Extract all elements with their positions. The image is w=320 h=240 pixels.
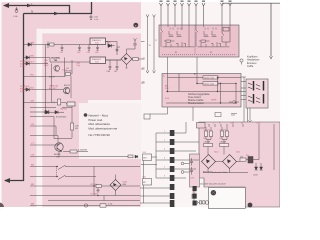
wire row 89.5 [48,89,63,91]
svg-text:BU: BU [31,165,34,167]
IC1 box TDA4600 [90,38,106,45]
transistor T62 [63,87,69,94]
svg-text:S2: S2 [210,52,212,54]
entry component small rect [50,43,55,46]
diode at pin3 [26,62,29,66]
pin wire row 10 [30,135,48,137]
svg-text:RD: RD [31,75,35,77]
capacitor on row 191 [97,188,100,193]
svg-text:0,4A: 0,4A [20,65,25,68]
svg-text:1,8k/5W: 1,8k/5W [204,142,211,144]
tiny labels above arrows [160,1,232,2]
label BU208 T60 above transistor [52,57,61,62]
capacitor C at N corner [90,15,93,20]
caps row hanging from wire 44.5 [61,45,99,51]
wire L line [5,6,70,14]
svg-text:IC60: IC60 [95,42,99,44]
relay box bottom dashed line [162,54,236,56]
striped connector bar main [170,130,175,207]
fuse F1 [203,82,218,86]
relay group 2 internals [196,25,230,47]
badge circle bottom right [248,203,253,208]
small box mid white area [144,114,150,119]
diode D61 [46,111,49,114]
resistor pair 1b [220,129,229,136]
wires pairs down [206,127,227,140]
diode end row156 [135,155,138,158]
svg-text:GY: GY [31,62,35,64]
svg-text:C61: C61 [60,52,63,54]
svg-text:10k: 10k [240,156,243,158]
wires from fuse box down [150,107,193,121]
svg-text:N: N [31,10,33,14]
svg-text:220-240V 110-120V 220-240V: 220-240V 110-120V 220-240V [200,183,226,185]
fuse F2 [203,76,218,80]
pin wire row 4 [24,76,48,78]
svg-text:GY 60Hz: GY 60Hz [90,193,98,195]
svg-text:3: 3 [164,149,165,151]
svg-text:BU: BU [31,88,34,90]
top entry marks row [203,124,259,127]
wires crossing connector bars [140,122,199,203]
svg-text:Mod. alimentatore: Mod. alimentatore [89,122,111,126]
diode D60 right of IC1 [106,42,115,48]
diode at pin2 [26,56,29,60]
caps in extension [190,158,193,175]
svg-text:C10: C10 [203,138,206,140]
mains plug symbol [15,7,18,13]
page background [0,0,280,210]
module border white channel: left vertical band (connector strip) [37,29,43,207]
red wire-colour labels left of pins [31,43,35,206]
pin wire row 13 [30,166,48,168]
wire row 205.5 [48,205,140,207]
wire N line [24,2,92,14]
IC2 box TDA4600 [90,57,106,64]
white bottom margin [0,207,280,210]
red label far right of T61a [77,63,81,67]
far right vertical wire [273,124,275,170]
pin wire row 12 [30,156,48,158]
resistor 1k horizontal ch1 [204,142,213,147]
svg-text:2: 2 [164,140,165,142]
pink bottom middle section [88,158,141,207]
capacitor C64 [96,45,99,51]
junction dots fuse verticals [217,77,221,104]
switch S60 arm 2 [58,175,66,180]
arrow down at right wire [270,56,273,59]
v arrows above fuse box [146,71,155,74]
transistor BU60 big [55,143,63,152]
svg-text:27k 27k: 27k 27k [204,129,210,131]
red labels top row [200,122,261,124]
wire row 200 [48,200,140,202]
junction box small at 49 [47,44,49,46]
wire row 195.5 [48,195,140,197]
pink left column lower [0,100,88,207]
svg-text:2,2: 2,2 [53,102,56,104]
svg-text:LP70: LP70 [192,192,196,194]
svg-text:0,1µ: 0,1µ [94,19,99,21]
wire row 185.5 [48,185,140,187]
red labels in fuse box [165,86,170,100]
red labels bottom rows [90,184,98,196]
page corner mark bottom left [0,203,4,208]
relay right wires from arrows 222/230 [222,25,230,46]
svg-text:BD679: BD679 [64,85,70,87]
switch contacts group lower [248,94,264,104]
white top margin [0,0,280,2]
svg-text:+26V: +26V [256,122,261,124]
small rect end row156 [128,155,133,158]
svg-text:AP 3017: AP 3017 [49,87,58,90]
svg-text:Endstufen-Mod.: Endstufen-Mod. [212,171,228,174]
svg-text:1,8k/5W: 1,8k/5W [220,142,227,144]
pin wire row 15 [30,185,48,187]
box part at 103 [67,102,75,106]
resistor on row 186 [96,185,102,188]
svg-text:C66: C66 [107,71,110,73]
jack symbol bottom right of fuse box [229,101,239,104]
wires into bridges [208,140,224,155]
svg-text:BY299: BY299 [49,76,55,78]
svg-text:R15: R15 [246,155,249,157]
dark component RK [248,157,253,164]
transistor T61a [54,65,60,71]
wire rows 116-145 short [48,117,72,146]
connector arrows row [160,3,163,25]
capacitor C65 right of IC1 [116,48,119,53]
arrowhead right on N [54,12,59,15]
resistor vertical at 58,100 [53,99,61,105]
badge circle A top [133,23,138,28]
svg-text:C62: C62 [77,52,80,54]
svg-text:Mod. alimentazione rete: Mod. alimentazione rete [89,126,118,130]
bottom components row 205 [84,204,106,207]
svg-text:4: 4 [164,158,165,160]
svg-text:C64: C64 [95,52,98,54]
svg-text:RD: RD [31,184,35,186]
white box bottom right [208,187,245,208]
svg-text:BN: BN [31,204,34,206]
cap labels C66 C67 [107,71,118,73]
screw icon in white box [211,190,216,195]
vertical x64 [63,58,65,77]
red labels between bridges [203,138,249,157]
wire pin1 to IC1 [48,42,90,49]
component box corner of lower right module [197,123,206,129]
pin wire row 1 [24,44,48,46]
svg-text:0,1µ: 0,1µ [77,65,81,67]
bridge rectifier GL70 [202,155,216,169]
top right corner wire [222,3,280,56]
wire row 176 [48,176,96,178]
svg-text:C11: C11 [219,138,222,140]
connector circles right of bar [181,162,189,173]
svg-text:GN: GN [31,101,35,103]
svg-text:50202 1,6A: 50202 1,6A [204,82,214,85]
svg-text:TA7805: TA7805 [60,108,68,111]
red label block TA78 [49,85,59,91]
bottom left components of module [192,191,209,205]
svg-text:S15: S15 [143,177,146,179]
red cap labels [60,52,99,54]
wire top component row at 103 [48,103,72,117]
svg-text:27k 27k: 27k 27k [220,129,226,131]
svg-text:Netzteil – Mod.: Netzteil – Mod. [89,113,109,117]
svg-text:6: 6 [164,176,165,178]
vertical stubs bottom rows [94,167,116,201]
svg-text:5: 5 [164,167,165,169]
light region of netzteil text block [79,103,141,159]
bridge rectifier GL60 diamond [121,54,132,65]
wires bridge sides [203,162,248,173]
caps below IC2 C66 C67 [106,60,128,69]
svg-text:0,4A: 0,4A [13,15,18,18]
wire row 166 [48,166,140,168]
pink page area top-left [0,2,141,100]
wires between boxes [141,157,157,203]
vertical x71 lower [70,76,72,98]
capacitor C63 [88,45,91,51]
svg-text:1,8k/1W: 1,8k/1W [65,71,72,73]
svg-text:No.7736 030 90: No.7736 030 90 [89,133,111,137]
svg-text:IC61: IC61 [95,61,99,63]
svg-text:GNYE: GNYE [211,99,217,101]
wire row 151 with resistor to right [59,151,88,156]
wire row 76.5 to right [48,60,72,77]
svg-text:0,33Ω/5W: 0,33Ω/5W [78,150,87,152]
lower module pink extension left [190,154,200,187]
svg-text:GL10: GL10 [214,152,218,154]
svg-text:Power mod.: Power mod. [89,118,104,122]
fuse box entry wires L and P [168,57,204,84]
bridge rectifier GL71 [223,155,237,169]
bridge rectifier GL61 [110,180,121,191]
svg-text:S1: S1 [175,52,177,54]
resistor 1k horizontal ch2 [220,142,229,147]
diode at pin row 110 [30,110,48,114]
wire below switch panel [249,108,252,123]
pin wire row 17 [30,205,48,207]
svg-text:C63: C63 [87,52,90,54]
pin wire row 14 [30,176,48,178]
switch S60 arm 1 [58,165,66,170]
svg-text:GY: GY [31,155,35,157]
resistor pair 1a [204,129,213,136]
arrowhead right on L [27,4,32,7]
small box S70 [143,152,152,160]
pin wire row 9 [30,125,48,127]
arrow left tip L [3,3,9,8]
relay box divider dashed [194,26,196,55]
svg-text:P: P [194,72,196,76]
wire N down left side [5,14,24,181]
pin wire row 11 [30,144,48,146]
pin wire row 5 [24,89,48,91]
small rect 10k [240,156,246,161]
red text block margin upper [20,61,31,68]
capacitor C61 [61,45,64,51]
diode D62 [44,111,64,114]
pin wire row 8 [30,116,48,118]
diode pair bottom right [255,167,263,170]
svg-text:BY258/600: BY258/600 [56,117,67,119]
wire bus vertical x51 [50,64,52,103]
resistor right of bridge [132,58,141,61]
pin wire row 6 [24,102,48,104]
resistor R66 horizontal [70,150,77,153]
small connector marks above module [215,113,221,117]
resistor 1,8k 1W [65,71,72,76]
svg-text:0,8A: 0,8A [20,90,25,93]
switch link vertical [56,167,58,177]
svg-text:4,7Ω: 4,7Ω [108,204,113,206]
svg-text:±24V: ±24V [253,175,258,177]
junction dots bottom rows [56,166,98,196]
diode D60 at pin1 [28,43,31,47]
arrow left tip bottom [4,178,10,183]
wires right portion [246,127,261,167]
wire with cap above bridge [127,38,137,53]
white left sliver [0,0,2,210]
svg-text:50201 0,5A: 50201 0,5A [204,76,214,79]
svg-text:C67: C67 [114,71,117,73]
svg-text:WH: WH [31,43,35,45]
tiny labels next to bar [164,131,165,178]
junction dots fuse box [167,83,237,104]
small box S71 [143,177,152,185]
fuse wires to right edge [166,74,241,104]
red text block margin lower [20,86,31,93]
svg-text:S14: S14 [143,152,146,154]
svg-text:250V~: 250V~ [44,65,50,67]
wire pin2 to IC2 [48,58,90,63]
diode at pin5 [26,88,29,92]
striped connector bar second [193,186,197,206]
svg-text:GL11: GL11 [236,152,240,154]
pin wire row 3 [24,63,48,65]
switch contacts group upper [248,81,264,91]
pin wire row 16 [30,195,48,197]
svg-text:L: L [213,122,214,124]
pin wire row 2 [24,57,48,59]
capacitor C62 [78,45,81,51]
wire row 156 long [48,156,128,158]
svg-text:BN: BN [31,56,34,58]
red label block left of T61a [44,60,50,67]
svg-text:4,5V: 4,5V [165,98,170,100]
svg-text:D60: D60 [108,42,111,44]
wire row 102.5 [48,102,66,104]
module border white channel: top band [37,29,142,34]
pin wire row 7 [30,107,48,109]
relay group 1 internals [161,25,195,47]
vertical bus right of strip [45,45,47,113]
svg-text:Cuffia: Cuffia [247,65,254,68]
wires IC right side to bridge [106,42,122,61]
svg-text:Piastra fusioni: Piastra fusioni [188,102,204,105]
resistor R64 vertical [71,117,79,138]
svg-text:1: 1 [164,131,165,133]
red pin labels right edge [142,40,158,83]
svg-text:5W: 5W [75,128,78,130]
